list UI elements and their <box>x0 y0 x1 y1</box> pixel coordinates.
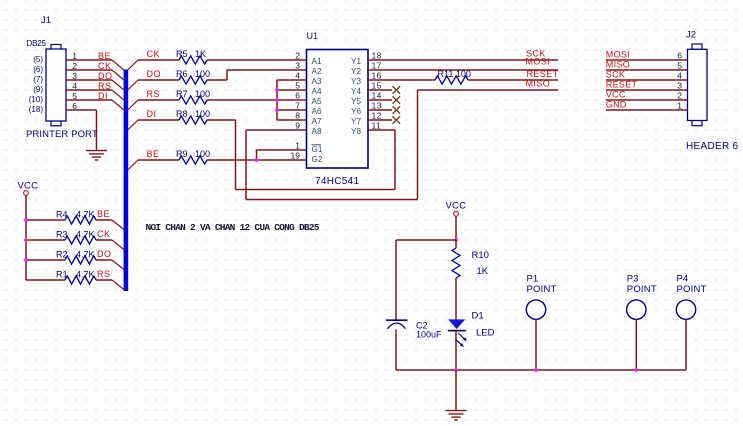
U1 pin number 1 <box>295 141 300 151</box>
U1 pin number 9 <box>295 121 300 131</box>
U1 pin name Y7 <box>351 117 361 126</box>
U1 pin number 6 <box>295 91 300 101</box>
wire G1 stub and drop to G2 <box>257 150 307 160</box>
U1 pin name Y5 <box>351 97 361 106</box>
svg-text:R1: R1 <box>56 270 68 280</box>
wire VCC to R1 <box>26 279 65 281</box>
test point P3 <box>627 274 657 320</box>
svg-text:4.7K: 4.7K <box>76 210 95 220</box>
svg-text:(18): (18) <box>29 105 44 114</box>
J1 pin number 3 <box>72 71 77 81</box>
U1 pin name Y6 <box>351 107 361 116</box>
resistor R5 <box>179 56 207 64</box>
svg-text:R9: R9 <box>176 149 188 159</box>
svg-text:RESET: RESET <box>606 80 638 90</box>
U1 pin name A2 <box>312 67 322 76</box>
connector J2 refdes <box>686 30 696 41</box>
svg-text:DO: DO <box>97 249 112 259</box>
svg-text:CK: CK <box>98 61 112 71</box>
svg-text:17: 17 <box>372 61 382 71</box>
junction LED/rail <box>454 368 458 372</box>
net label MISO <box>526 79 551 89</box>
U1 pin name A5 <box>312 97 322 106</box>
wire under chip A8 to MISO <box>246 90 418 200</box>
svg-text:P1: P1 <box>527 274 539 285</box>
svg-text:A7: A7 <box>312 117 322 126</box>
svg-text:6: 6 <box>677 51 682 61</box>
label R2 4.7K <box>56 250 95 260</box>
svg-text:9: 9 <box>295 121 300 131</box>
J1 pin number 1 <box>72 51 77 61</box>
wire Y1 to SCK <box>367 59 558 61</box>
svg-text:Y1: Y1 <box>351 57 361 66</box>
svg-text:Y5: Y5 <box>351 97 361 106</box>
svg-text:POINT: POINT <box>627 284 657 295</box>
wire U1 no-connect stub pin 14 <box>367 99 392 101</box>
svg-text:DB25: DB25 <box>27 39 47 48</box>
svg-text:P4: P4 <box>677 274 689 285</box>
U1 pin name Y3 <box>351 77 361 86</box>
svg-text:BE: BE <box>97 209 110 219</box>
U1 pin number 15 <box>372 81 382 91</box>
net label MOSI at J2 <box>606 50 630 60</box>
J2 pin number 5 <box>677 61 682 71</box>
net label DI at bus exit <box>147 109 157 119</box>
svg-text:2: 2 <box>677 91 682 101</box>
wire Y3 to R11 <box>367 79 435 81</box>
net label CK at R3 <box>97 229 111 239</box>
ground under J1 pin 6 <box>86 151 107 160</box>
bus entry left from pullup row y=280 <box>112 280 125 290</box>
U1 pin number 17 <box>372 61 382 71</box>
test point P4 <box>676 274 706 320</box>
svg-text:NOI CHAN 2 VA CHAN 12 CUA CONG: NOI CHAN 2 VA CHAN 12 CUA CONG DB25 <box>146 222 320 233</box>
svg-text:MISO: MISO <box>526 79 551 89</box>
U1 pin number 19 <box>291 151 301 161</box>
J1 DB25 pin label (18) <box>29 105 44 114</box>
svg-text:R6: R6 <box>176 69 188 79</box>
net label SCK at J2 <box>606 70 625 80</box>
resistor R3 <box>65 236 96 244</box>
label R8 value <box>176 109 210 119</box>
U1 pin number 16 <box>372 71 382 81</box>
wire bus to R6 <box>138 79 179 81</box>
net label VCC at J2 <box>606 90 626 100</box>
wire J2 pin 6 <box>606 59 688 61</box>
svg-text:1: 1 <box>295 141 300 151</box>
svg-text:CK: CK <box>147 49 161 59</box>
connector J2 body <box>688 44 708 126</box>
svg-text:A8: A8 <box>312 127 322 136</box>
wire U1 pin 11 stub <box>367 129 395 131</box>
J2 pin number 6 <box>677 51 682 61</box>
J2 pin number 1 <box>677 101 682 111</box>
connector J1 refdes <box>41 15 51 26</box>
svg-text:G1: G1 <box>312 145 323 154</box>
J2 pin number 4 <box>677 71 682 81</box>
wire J1 pin 2 to bus entry <box>66 69 112 71</box>
net label SCK <box>526 49 546 59</box>
svg-text:4.7K: 4.7K <box>76 270 95 280</box>
label R6 value <box>176 69 210 79</box>
svg-text:100: 100 <box>195 89 210 99</box>
wire VCC to R4 <box>26 219 65 221</box>
U1 pin number 4 <box>295 71 300 81</box>
bus entry right to resistor row y=100 <box>128 100 138 110</box>
junction A-tie pin6 <box>275 98 279 102</box>
wire P4 to rail <box>685 319 687 370</box>
bus entry right to resistor row y=60 <box>128 60 138 70</box>
svg-text:19: 19 <box>291 151 301 161</box>
net label RESET at J2 <box>606 80 638 90</box>
capacitor C2 <box>386 320 408 329</box>
svg-text:1K: 1K <box>477 266 489 277</box>
wire LED to rail <box>455 331 457 370</box>
wire VCC to R3 <box>26 239 65 241</box>
wire R3 to bus <box>96 239 112 241</box>
bus entry left from J1 row y=90 <box>112 90 124 100</box>
label C2 100uF <box>416 321 442 340</box>
svg-text:5: 5 <box>677 61 682 71</box>
wire R5 to U1 pin 2 (CK/A1) <box>207 59 307 61</box>
svg-text:Y6: Y6 <box>351 107 361 116</box>
power VCC right <box>446 201 467 217</box>
wire VCC to R2 <box>26 259 65 261</box>
svg-text:5: 5 <box>295 81 300 91</box>
wire R7 to U1 pin 6 (RS/A5) <box>207 99 307 101</box>
junction BE/G1/G2 <box>255 158 259 162</box>
svg-text:VCC: VCC <box>18 181 39 192</box>
svg-text:100: 100 <box>195 69 210 79</box>
net label GND at J2 <box>606 100 627 110</box>
wire junction to R10 <box>455 240 457 248</box>
wire U1 pin 9 (A8) stub <box>246 130 307 200</box>
wire bus to R7 <box>138 99 179 101</box>
LED D1 <box>448 320 467 347</box>
U1 pin number 12 <box>372 111 382 121</box>
junction A-tie pin5 <box>275 88 279 92</box>
svg-text:DI: DI <box>98 91 108 101</box>
svg-text:VCC: VCC <box>446 201 467 212</box>
label R9 value <box>176 149 210 159</box>
bus entry right to resistor row y=120 <box>128 120 138 130</box>
IC U1 74HC541 body <box>307 50 369 169</box>
no-connect X pin 14 <box>393 96 401 104</box>
net label RESET <box>527 69 559 79</box>
power VCC left <box>18 181 39 196</box>
svg-text:Y7: Y7 <box>351 117 361 126</box>
J1 DB25 pin label (5) <box>33 55 43 64</box>
connector J1 body <box>46 45 66 126</box>
wire J1 pin 6 to ground <box>66 110 97 150</box>
svg-text:RS: RS <box>147 89 161 99</box>
U1 pin name Y8 <box>351 127 361 136</box>
bus entry left from J1 row y=80 <box>112 80 124 90</box>
wire bus to R5 <box>138 59 179 61</box>
wire U1 no-connect stub pin 12 <box>367 119 392 121</box>
svg-text:15: 15 <box>372 81 382 91</box>
wire R1 to bus <box>96 279 112 281</box>
U1 pin name G1 with overline <box>312 145 323 154</box>
net label DO at J1 <box>98 71 113 81</box>
op-amp/buffer U1 refdes <box>307 31 319 41</box>
J1 DB25 pin label (9) <box>33 85 43 94</box>
wire J1 pin 3 to bus entry <box>66 79 112 81</box>
svg-text:J1: J1 <box>41 15 51 26</box>
wire bus to R8 <box>138 119 179 121</box>
wire R11 to RESET <box>468 79 558 81</box>
svg-text:8: 8 <box>295 111 300 121</box>
resistor R7 <box>179 96 207 104</box>
label 74HC541 <box>315 176 359 187</box>
svg-text:18: 18 <box>372 51 382 61</box>
junction VCC/R10/C2 <box>454 238 458 242</box>
resistor R8 <box>179 116 207 124</box>
wire R4 to bus <box>96 219 112 221</box>
label D1 LED <box>472 311 495 339</box>
bus entry left from J1 row y=60 <box>112 60 124 70</box>
wire VCC to junction <box>455 216 457 240</box>
wire J2 pin 1 <box>606 109 688 111</box>
U1 pin number 8 <box>295 111 300 121</box>
wire VCC left vertical <box>25 195 27 280</box>
svg-text:3: 3 <box>295 61 300 71</box>
svg-text:G2: G2 <box>312 155 323 164</box>
svg-text:D1: D1 <box>472 311 484 322</box>
svg-text:R2: R2 <box>56 250 68 260</box>
net label RS at R1 <box>97 269 111 279</box>
svg-text:DO: DO <box>98 71 113 81</box>
svg-text:DO: DO <box>147 69 162 79</box>
svg-text:4.7K: 4.7K <box>76 230 95 240</box>
svg-text:MISO: MISO <box>606 60 630 70</box>
svg-text:(6): (6) <box>33 65 43 74</box>
wire R10 to LED <box>455 278 457 320</box>
svg-text:RS: RS <box>97 269 111 279</box>
wire J1 pin 5 to bus entry <box>66 99 112 101</box>
J1 DB25 pin label (10) <box>29 95 44 104</box>
U1 pin number 13 <box>372 101 382 111</box>
wire P1 to rail <box>535 319 537 370</box>
junction P1/rail <box>534 368 538 372</box>
svg-text:R11 100: R11 100 <box>438 69 471 79</box>
U1 pin name Y1 <box>351 57 361 66</box>
wire R8 / DI to under-chip route <box>207 120 236 190</box>
svg-text:J2: J2 <box>686 30 696 41</box>
U1 pin number 7 <box>295 101 300 111</box>
wire J2 pin 5 <box>606 69 688 71</box>
label R4 4.7K <box>56 210 95 220</box>
svg-text:74HC541: 74HC541 <box>315 176 359 187</box>
wire J2 pin 3 <box>606 89 688 91</box>
svg-text:A4: A4 <box>312 87 322 96</box>
U1 pin name A1 <box>312 57 322 66</box>
net label RS at J1 <box>98 81 112 91</box>
resistor R9 <box>179 156 207 164</box>
svg-text:POINT: POINT <box>677 284 707 295</box>
svg-text:6: 6 <box>295 91 300 101</box>
svg-text:R7: R7 <box>176 89 188 99</box>
svg-text:U1: U1 <box>307 31 319 41</box>
junction P3/rail <box>634 368 638 372</box>
svg-text:1: 1 <box>677 101 682 111</box>
wire R6 to U1 pin 3 (DO/A2) with jog <box>207 70 307 80</box>
net label MOSI <box>526 57 551 67</box>
no-connect X pin 15 <box>393 86 401 94</box>
svg-text:Y4: Y4 <box>351 87 361 96</box>
svg-text:13: 13 <box>372 101 382 111</box>
wire MISO stub <box>418 89 559 91</box>
svg-text:RS: RS <box>98 81 112 91</box>
net label BE at R4 <box>97 209 110 219</box>
U1 pin number 2 <box>295 51 300 61</box>
net label DO at bus exit <box>147 69 162 79</box>
wire U1 no-connect stub pin 13 <box>367 109 392 111</box>
svg-text:12: 12 <box>372 111 382 121</box>
svg-text:16: 16 <box>372 71 382 81</box>
wire R9 to U1 pin 19 (BE/G2) <box>207 159 307 161</box>
svg-text:BE: BE <box>147 149 160 159</box>
connector J1 type label DB25 <box>27 39 47 48</box>
wire bus to R9 <box>138 159 179 161</box>
resistor R1 <box>65 276 96 284</box>
svg-text:MOSI: MOSI <box>526 57 551 67</box>
U1 pin name Y2 <box>351 67 361 76</box>
svg-text:A6: A6 <box>312 107 322 116</box>
net label CK at bus exit <box>147 49 161 59</box>
svg-text:A5: A5 <box>312 97 322 106</box>
wire U1 A-side stub y=90 <box>277 89 307 91</box>
bus entry left from J1 row y=70 <box>112 70 124 80</box>
wire P3 to rail <box>635 319 637 370</box>
svg-text:2: 2 <box>295 51 300 61</box>
wire U1 A-side stub y=120 <box>277 119 307 121</box>
svg-text:POINT: POINT <box>527 284 557 295</box>
J1 pin number 6 <box>72 101 77 111</box>
wire R2 to bus <box>96 259 112 261</box>
label R1 4.7K <box>56 270 95 280</box>
svg-text:11: 11 <box>372 121 382 131</box>
label PRINTER PORT <box>26 129 98 140</box>
resistor R10 <box>452 248 460 278</box>
U1 pin name A6 <box>312 107 322 116</box>
U1 pin number 5 <box>295 81 300 91</box>
svg-text:VCC: VCC <box>606 90 626 100</box>
svg-text:14: 14 <box>372 91 382 101</box>
svg-text:A1: A1 <box>312 57 322 66</box>
svg-text:Y2: Y2 <box>351 67 361 76</box>
label R5 value <box>176 49 206 59</box>
note NOI CHAN 2 VA CHAN 12 CUA CONG DB25 <box>146 222 320 233</box>
junction VCC/R3 <box>24 238 28 242</box>
bus (thick blue vertical) <box>124 70 129 292</box>
svg-text:Y8: Y8 <box>351 127 361 136</box>
svg-text:R4: R4 <box>56 210 68 220</box>
wire U1 A-side stub y=110 <box>277 109 307 111</box>
svg-text:3: 3 <box>677 81 682 91</box>
label R10 1K <box>472 250 489 277</box>
svg-text:DI: DI <box>147 109 157 119</box>
wire A3..A7 tie vertical <box>276 80 278 120</box>
J2 pin number 3 <box>677 81 682 91</box>
U1 pin name A8 <box>312 127 322 136</box>
U1 pin name G2 <box>312 155 323 164</box>
svg-text:7: 7 <box>295 101 300 111</box>
wire U1 A-side stub y=80 <box>277 79 307 81</box>
resistor R2 <box>65 256 96 264</box>
wire J2 pin 4 <box>606 79 688 81</box>
bus entry left from J1 row y=100 <box>112 100 124 110</box>
svg-text:HEADER 6: HEADER 6 <box>686 141 739 152</box>
junction VCC/R2 <box>24 258 28 262</box>
resistor R11 <box>435 76 468 84</box>
J2 pin number 2 <box>677 91 682 101</box>
svg-text:A3: A3 <box>312 77 322 86</box>
svg-text:4: 4 <box>295 71 300 81</box>
svg-text:4.7K: 4.7K <box>76 250 95 260</box>
net label RS at bus exit <box>147 89 161 99</box>
svg-text:P3: P3 <box>627 274 639 285</box>
label R7 value <box>176 89 210 99</box>
net label BE at bus exit <box>147 149 160 159</box>
svg-text:100: 100 <box>195 109 210 119</box>
wire J2 pin 2 <box>606 99 688 101</box>
wire Y2 to MOSI <box>367 69 558 71</box>
label R11 100 <box>438 69 471 79</box>
U1 pin name A7 <box>312 117 322 126</box>
U1 pin name A4 <box>312 87 322 96</box>
svg-text:R5: R5 <box>176 49 188 59</box>
svg-text:(9): (9) <box>33 85 43 94</box>
ground bottom center <box>446 411 467 420</box>
svg-text:A2: A2 <box>312 67 322 76</box>
U1 pin number 11 <box>372 121 382 131</box>
test point P1 <box>526 274 556 320</box>
wire C2 to rail <box>395 330 397 371</box>
svg-text:R3: R3 <box>56 230 68 240</box>
no-connect X pin 12 <box>393 116 401 124</box>
svg-text:4: 4 <box>677 71 682 81</box>
wire under chip DI to Y8 <box>236 130 396 190</box>
svg-text:(10): (10) <box>29 95 44 104</box>
label R3 4.7K <box>56 230 95 240</box>
U1 pin name Y4 <box>351 87 361 96</box>
svg-text:LED: LED <box>476 328 495 339</box>
wire J1 pin 4 to bus entry <box>66 89 112 91</box>
bus entry right to resistor row y=160 <box>128 160 138 170</box>
resistor R4 <box>65 216 96 224</box>
svg-text:1K: 1K <box>195 49 206 59</box>
bus entry left from pullup row y=240 <box>112 240 125 250</box>
junction VCC/R4 <box>24 218 28 222</box>
no-connect X pin 13 <box>393 106 401 114</box>
svg-text:RESET: RESET <box>527 69 559 79</box>
J1 pin number 5 <box>72 91 77 101</box>
svg-text:Y3: Y3 <box>351 77 361 86</box>
J1 pin number 4 <box>72 81 77 91</box>
net label DO at R2 <box>97 249 112 259</box>
bus entry left from pullup row y=260 <box>112 260 125 270</box>
svg-text:100uF: 100uF <box>416 330 442 340</box>
svg-text:BE: BE <box>98 51 111 61</box>
svg-text:PRINTER PORT: PRINTER PORT <box>26 129 98 140</box>
net label MISO at J2 <box>606 60 630 70</box>
svg-text:100: 100 <box>195 149 210 159</box>
wire bottom rail <box>396 369 686 371</box>
net label BE at J1 <box>98 51 111 61</box>
label HEADER 6 <box>686 141 739 152</box>
svg-text:(7): (7) <box>33 75 43 84</box>
